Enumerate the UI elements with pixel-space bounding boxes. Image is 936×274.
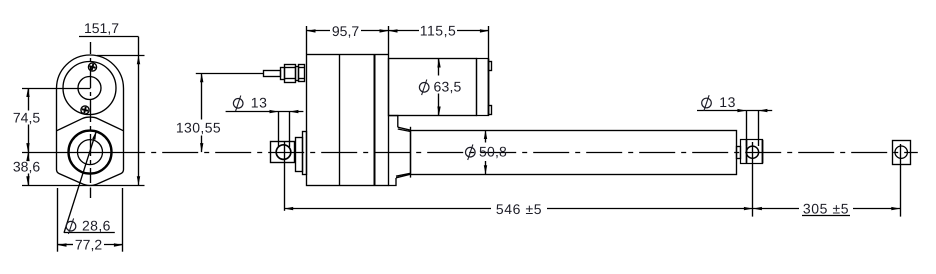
dimension 74,5 line [28,88,30,111]
svg-text:63,5: 63,5 [434,79,462,95]
dimension 151,7 vertical line [138,37,140,186]
rear pin centerline / 546 extension [284,142,286,211]
svg-text:95,7: 95,7 [332,23,359,39]
dimension O50,8 text [466,147,476,157]
dimension 95,7 line [307,30,331,32]
cable wire [196,73,263,75]
dimension 38,6 line [28,152,30,160]
gearbox body [307,55,389,186]
dimension O13 front line [697,110,746,112]
dimension O13 front text [702,98,712,108]
dimension O50,8 line [485,130,487,143]
extension line top of outline [97,55,145,57]
outer tube O50.8 [411,131,737,175]
extension line bottom of outline [22,185,145,187]
hex end-cap top facets [57,117,124,131]
gearbox interior bold edge [374,54,376,186]
dimension O63,5 text [419,83,429,93]
dimension O63,5 line [438,59,440,76]
actuator end view outline (stadium body with hex end cap) [57,55,124,186]
extended position pin circle [895,146,907,158]
extended pin centerline / 305 extension [900,144,902,217]
front clevis pin hole O13 [746,146,758,158]
dimension 151,7 leader [79,36,139,38]
svg-text:305 ±5: 305 ±5 [803,201,849,217]
screw top (phillips) [88,63,96,71]
front clevis flange edge [746,140,748,163]
dimension 77,2 extension lines [57,188,59,252]
gland hex body [285,65,296,83]
dimension 546 line [284,208,491,210]
dimension O13 rear text [233,99,243,109]
end view vertical centerline [90,42,92,183]
svg-text:546 ±5: 546 ±5 [496,201,542,217]
cable sleeve [264,71,281,77]
motor cap tab top [489,62,492,71]
gland neck [296,67,299,81]
rear mount plate 2 [303,132,307,175]
svg-text:74,5: 74,5 [13,110,40,126]
front collar step [389,116,398,128]
dimension 95,7 extension lines [306,26,308,54]
gearbox interior edge [339,54,341,186]
dimension O13 front extension lines [746,111,748,146]
motor body [389,59,477,116]
gland locknut [299,65,305,82]
svg-text:130,55: 130,55 [176,120,221,136]
dimension O28,6 text [66,221,76,231]
front pin centerline / 546-305 extension [752,142,754,217]
svg-text:13: 13 [719,94,736,110]
dimension O13 rear extension lines [278,112,280,147]
dimension 115,5 line [389,30,420,32]
rear mount plate 1 [296,138,303,172]
motor centerline horizontal [22,88,91,90]
dimension 115,5 extension line [488,26,490,58]
front clevis bold right edge [762,140,764,163]
dimension 305 line [753,208,799,210]
motor end circle [63,62,116,115]
svg-text:50,8: 50,8 [479,144,507,160]
extended position pin square [893,141,911,165]
motor hub circle [78,77,101,100]
front collar face [410,127,412,178]
svg-text:77,2: 77,2 [75,237,102,253]
gland step [281,68,285,80]
clevis hole circle O28.6 [78,140,103,165]
tube end bold circle (O50.8) [69,131,112,174]
dimension 130,55 line [201,73,203,119]
rear clevis pin hole O13 [276,145,291,160]
main axis centerline [22,152,145,154]
rod stub [737,147,741,159]
motor end cap bold face [488,59,490,116]
rear clevis block [271,142,295,163]
svg-text:38,6: 38,6 [13,159,40,175]
motor cap tab bottom [489,106,492,115]
motor end cap [477,59,489,116]
svg-text:151,7: 151,7 [84,20,119,36]
front clevis block [741,140,763,164]
dimension O13 rear line [226,111,304,113]
screw bottom (phillips) [81,106,89,114]
svg-text:28,6: 28,6 [82,218,111,234]
front collar cone [398,127,411,130]
dimension O28,6 leader line [64,131,97,233]
dimension 77,2 line [58,244,74,246]
svg-text:13: 13 [251,95,268,111]
svg-text:115,5: 115,5 [420,23,457,39]
